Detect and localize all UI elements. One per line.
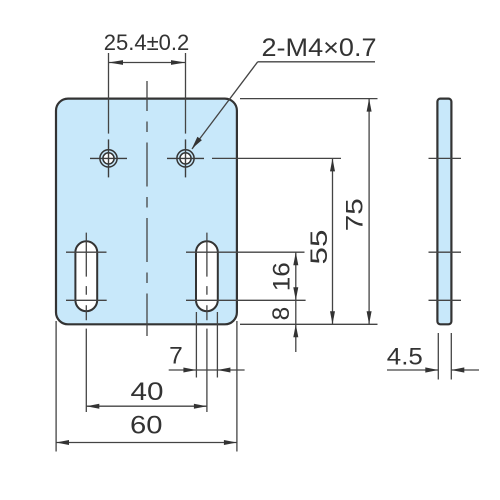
vertical centerline (146, 81, 148, 336)
slot-top-center line across side view (429, 251, 462, 253)
dimension 4.5 (387, 333, 479, 380)
hole-center extension line right (212, 157, 341, 159)
plate front view (56, 99, 237, 325)
dimension 25.4±0.2 (104, 30, 189, 134)
tapped hole right (167, 139, 204, 177)
dimension 55 (306, 158, 335, 324)
dimension 40 (86, 329, 207, 412)
slot-center line right upper (16 top extension) (186, 251, 305, 253)
slot right (196, 233, 218, 321)
slot-bottom-center line across side view (429, 299, 462, 301)
dimension 75 (240, 99, 378, 325)
svg-text:8: 8 (268, 307, 295, 321)
label 2-M4×0.7 with leader (192, 34, 377, 149)
svg-text:25.4±0.2: 25.4±0.2 (104, 30, 189, 55)
plate side view (437, 99, 451, 325)
svg-text:75: 75 (342, 198, 369, 231)
slot left (66, 233, 107, 321)
svg-text:2-M4×0.7: 2-M4×0.7 (262, 34, 377, 62)
tapped hole left (90, 139, 127, 177)
svg-text:16: 16 (268, 262, 295, 291)
dimension 16 (268, 252, 298, 300)
hole-center line across side view (429, 157, 462, 159)
svg-text:4.5: 4.5 (387, 344, 423, 371)
svg-text:40: 40 (131, 378, 164, 406)
dimension 60 (56, 321, 237, 452)
dimension 7 (169, 312, 245, 378)
dimension 8 (268, 300, 299, 352)
svg-text:7: 7 (169, 342, 183, 369)
svg-text:55: 55 (306, 230, 333, 265)
slot-center line right lower (16/8 extension) (186, 299, 306, 301)
svg-text:60: 60 (130, 412, 163, 440)
